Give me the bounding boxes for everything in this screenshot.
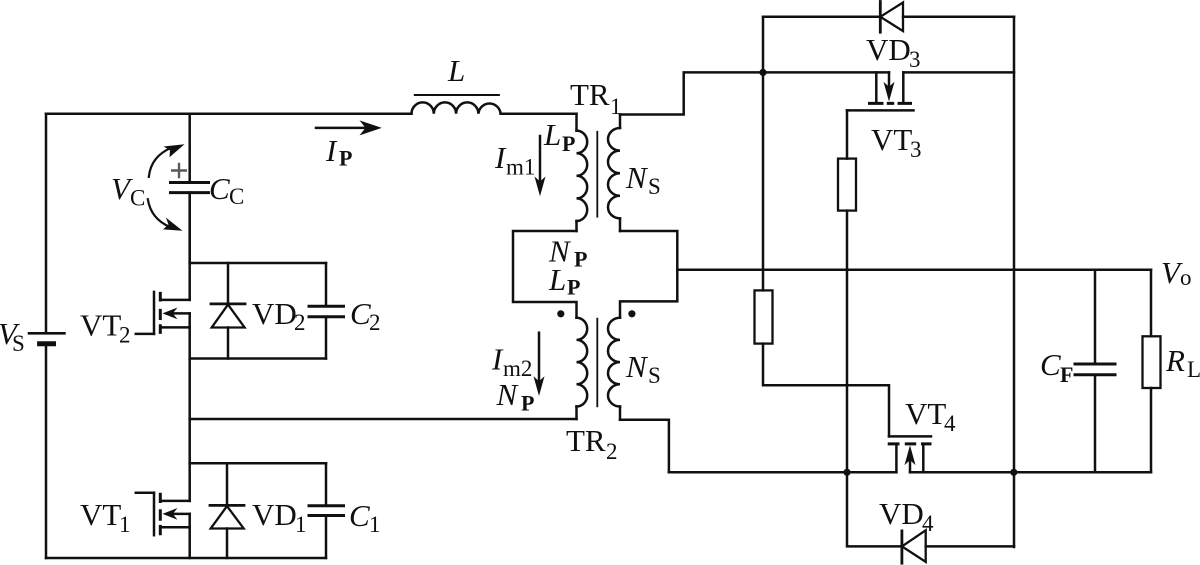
svg-text:F: F — [1060, 362, 1073, 387]
diode VD1 — [226, 463, 229, 505]
junction dot — [1010, 469, 1017, 476]
inductor L — [412, 102, 501, 113]
svg-text:TR: TR — [566, 423, 606, 458]
svg-text:1: 1 — [119, 512, 131, 537]
wire NP box secondary side — [620, 231, 677, 318]
svg-text:S: S — [12, 331, 25, 356]
wire VD1/C1 box top — [190, 462, 326, 465]
svg-text:VD: VD — [866, 32, 911, 67]
wire NP box primary side — [513, 231, 577, 318]
transformer TR2 primary winding — [577, 318, 588, 407]
svg-text:L: L — [548, 262, 566, 297]
svg-text:N: N — [625, 349, 649, 384]
svg-text:VT: VT — [871, 122, 912, 157]
wire bottom rail left — [46, 557, 326, 560]
svg-text:1: 1 — [369, 512, 381, 537]
wire VT1 source down — [188, 514, 191, 558]
wire bottom rail right (left segment) — [669, 471, 897, 474]
wire VT3 rail left — [763, 71, 889, 74]
capacitor CC — [188, 114, 191, 183]
wire VT1 drain up — [188, 463, 191, 501]
svg-text:1: 1 — [295, 512, 307, 537]
transformer TR1 core — [596, 132, 598, 217]
arrow VC arc bottom — [148, 199, 170, 227]
transformer TR2 secondary winding — [608, 318, 620, 407]
diode VD3 — [879, 2, 882, 33]
svg-text:VD: VD — [252, 497, 297, 532]
svg-text:2: 2 — [369, 310, 381, 335]
wire top rail left — [46, 112, 577, 115]
battery VS — [29, 332, 64, 335]
svg-text:TR: TR — [570, 77, 610, 112]
svg-text:S: S — [648, 174, 661, 199]
svg-text:N: N — [625, 160, 649, 195]
arrow IP — [316, 127, 366, 130]
diode VD2 — [227, 263, 230, 304]
svg-text:VT: VT — [80, 497, 121, 532]
wire left rail lower — [45, 344, 48, 558]
wire VT3 rail right — [903, 71, 1014, 74]
capacitor C2 — [325, 263, 328, 306]
svg-text:L: L — [447, 53, 465, 88]
svg-text:C: C — [350, 296, 371, 331]
svg-text:P: P — [574, 247, 587, 272]
capacitor CF — [1094, 270, 1097, 364]
svg-text:I: I — [325, 133, 338, 168]
wire right riser — [1013, 17, 1016, 547]
junction dot — [759, 69, 766, 76]
transistor VT4 — [889, 435, 931, 438]
transistor VT3 — [875, 72, 878, 102]
wire top-right riser — [762, 17, 765, 291]
svg-text:S: S — [648, 363, 661, 388]
capacitor C1 — [325, 463, 328, 506]
arrow Im2 — [538, 333, 541, 387]
resistor (VT4 gate) — [755, 290, 773, 343]
svg-text:VD: VD — [879, 496, 924, 531]
svg-text:2: 2 — [119, 323, 131, 348]
svg-text:4: 4 — [922, 511, 934, 536]
transformer TR2 core — [596, 319, 598, 407]
svg-text:3: 3 — [910, 137, 922, 162]
svg-text:L: L — [543, 117, 561, 152]
svg-text:N: N — [496, 377, 520, 412]
transformer TR1 secondary winding — [619, 115, 622, 129]
arrow Im1 — [539, 136, 542, 187]
svg-text:P: P — [339, 146, 352, 171]
wire drain VT2 up — [188, 193, 191, 300]
diode VD4 — [901, 531, 904, 563]
svg-text:C: C — [1040, 347, 1061, 382]
wire left rail upper — [45, 114, 48, 334]
transistor VT1 — [136, 491, 154, 494]
resistor RL — [1150, 270, 1153, 337]
svg-text:VD: VD — [252, 296, 297, 331]
wire VD4 loop — [847, 472, 902, 546]
svg-text:P: P — [562, 131, 575, 156]
svg-text:3: 3 — [909, 47, 921, 72]
phase dot TR2 secondary — [628, 310, 635, 317]
resistor (VT3 gate) — [846, 110, 849, 158]
wire VD2/C2 box bottom — [190, 357, 326, 360]
plus sign — [172, 164, 186, 177]
svg-text:P: P — [567, 275, 580, 300]
svg-text:2: 2 — [606, 439, 618, 464]
wire source VT2 down to mid rail — [188, 313, 191, 463]
transistor VT2 — [136, 333, 154, 336]
junction dot — [843, 469, 850, 476]
svg-text:2: 2 — [294, 310, 306, 335]
svg-text:VT: VT — [80, 307, 121, 342]
svg-text:1: 1 — [610, 94, 622, 119]
svg-text:o: o — [1180, 265, 1192, 290]
transformer TR1 primary winding — [575, 114, 578, 131]
arrow VC arc top — [149, 148, 172, 177]
svg-text:C: C — [130, 186, 145, 211]
svg-text:L: L — [1187, 357, 1200, 382]
svg-text:C: C — [349, 498, 370, 533]
svg-text:C: C — [229, 184, 244, 209]
svg-text:P: P — [521, 391, 534, 416]
wire VD3 top left — [763, 16, 880, 19]
svg-text:C: C — [209, 171, 230, 206]
wire output mid rail — [677, 268, 1151, 271]
wire VD2/C2 box top — [190, 262, 326, 265]
phase dot TR2 primary — [557, 310, 564, 317]
svg-text:R: R — [1165, 343, 1185, 378]
wire mid rail (to TR2 primary) — [190, 418, 577, 421]
svg-text:VT: VT — [905, 396, 946, 431]
wire TR1 secondary top to junction — [620, 72, 760, 114]
svg-text:4: 4 — [944, 411, 956, 436]
svg-text:m1: m1 — [506, 155, 535, 180]
wire bottom rail right (right segment) — [910, 471, 1151, 474]
wire TR2 secondary bottom to bottom rail — [620, 420, 669, 473]
